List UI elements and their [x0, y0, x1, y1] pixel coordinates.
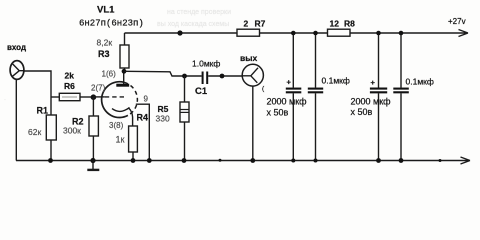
svg-text:вход: вход [7, 43, 26, 52]
node: C4 top junction [376, 31, 381, 36]
svg-text:+: + [371, 78, 376, 87]
wire: tube pin 9 to ground rail [136, 104, 150, 160]
svg-text:x 50в: x 50в [267, 108, 289, 118]
svg-text:330: 330 [156, 114, 170, 124]
scan bleed-through artifacts [4, 9, 231, 102]
node: R5 ground junction [182, 158, 187, 163]
wire: grid junction to tube grid pin 2(7) [93, 96, 104, 98]
node: anode junction dot [122, 69, 127, 74]
node: stray dot on ground rail [439, 159, 442, 162]
node: small dot on ground rail mid [219, 159, 222, 162]
svg-text:на стенде проверки: на стенде проверки [167, 9, 231, 16]
wire: input jack to R1 top (grid feed) [24, 71, 51, 115]
node: R4 ground junction [131, 158, 136, 163]
node: output ground junction [250, 158, 255, 163]
svg-text:.: . [4, 95, 6, 102]
resistor R4 [129, 126, 138, 161]
resistor R7 [237, 29, 260, 36]
tube VL1 cathode [112, 107, 133, 126]
svg-text:R7: R7 [255, 19, 266, 29]
node: junction dot before output [220, 74, 225, 79]
wire: input jack to ground rail [15, 79, 17, 160]
svg-text:R5: R5 [158, 104, 169, 114]
svg-text:+: + [287, 78, 292, 87]
svg-text:C1: C1 [195, 86, 208, 97]
capacitor C1 [203, 72, 208, 85]
svg-text:вы ход каскада схемы: вы ход каскада схемы [157, 21, 229, 28]
svg-text:(: ( [262, 86, 265, 93]
node: R5 top junction [182, 74, 187, 79]
svg-text:6н27п(6н23п): 6н27п(6н23п) [79, 19, 144, 29]
svg-text:8,2к: 8,2к [97, 38, 113, 48]
capacitor C5 0.1мкф [393, 33, 409, 161]
svg-text:вых: вых [240, 53, 257, 63]
resistor R2 [89, 97, 98, 161]
svg-text:9: 9 [144, 94, 149, 103]
wire: +27v top rail [125, 32, 462, 34]
connector XS1 input [10, 61, 24, 80]
resistor R5 [180, 76, 189, 161]
node: C5 top junction [399, 31, 404, 36]
capacitor C3 0.1мкф [308, 33, 323, 161]
svg-text:+27v: +27v [448, 17, 466, 26]
wire: output jack to ground rail [252, 86, 254, 161]
svg-text:0.1мкф: 0.1мкф [322, 76, 350, 86]
node: grid junction [91, 94, 97, 100]
node: C2 top junction [291, 31, 296, 36]
resistor R6 [51, 93, 93, 100]
svg-text:2000 мкф: 2000 мкф [267, 97, 308, 107]
svg-text:R4: R4 [137, 113, 149, 123]
svg-text:3(8): 3(8) [109, 121, 124, 130]
svg-text:2000 мкф: 2000 мкф [351, 97, 392, 107]
svg-text:0.1мкф: 0.1мкф [406, 77, 434, 87]
svg-text:VL1: VL1 [97, 5, 115, 16]
svg-text:2: 2 [244, 19, 249, 29]
node: pin 9 ground junction [147, 158, 152, 163]
svg-text:1(6): 1(6) [102, 70, 117, 79]
svg-text:R3: R3 [98, 49, 110, 59]
svg-text:R8: R8 [344, 19, 355, 29]
capacitor C2 electrolytic 2000мкф [286, 33, 302, 161]
svg-text:300к: 300к [63, 126, 81, 136]
node: C5 ground junction [399, 158, 404, 163]
svg-text:12: 12 [330, 19, 340, 29]
svg-text:62к: 62к [28, 127, 41, 137]
tube VL1 anode [116, 72, 129, 85]
node: C2 ground junction [291, 159, 295, 163]
wire: R1 to ground rail [50, 140, 52, 161]
tube VL1 envelope [102, 82, 138, 118]
resistor R3 [120, 33, 129, 73]
svg-text:1к: 1к [116, 135, 125, 145]
tube VL1 grid [105, 96, 127, 98]
node: stray junction dot on +27v rail [177, 30, 182, 35]
node: C4 ground junction [376, 158, 381, 163]
node: R1 ground junction [48, 158, 53, 163]
svg-text:2(7): 2(7) [91, 84, 106, 93]
capacitor C4 electrolytic 2000мкф [370, 33, 387, 161]
node: C3 ground junction [314, 159, 318, 163]
svg-text:1.0мкф: 1.0мкф [192, 59, 220, 69]
ground rail arrow [461, 157, 471, 164]
power arrow +27v [459, 30, 469, 37]
svg-text:x 50в: x 50в [351, 107, 373, 117]
wire: C1 to output jack [208, 75, 242, 77]
svg-text:R1: R1 [37, 106, 49, 116]
svg-text:2k: 2k [65, 71, 75, 81]
wire: bottom ground rail [16, 160, 463, 162]
ground [87, 158, 99, 170]
node: C3 top junction [313, 31, 318, 36]
svg-text:R6: R6 [64, 81, 75, 91]
connector XS2 output [242, 64, 263, 86]
resistor R1 [46, 115, 56, 140]
resistor R8 [328, 29, 351, 36]
wire: anode node to C1 [124, 71, 202, 76]
